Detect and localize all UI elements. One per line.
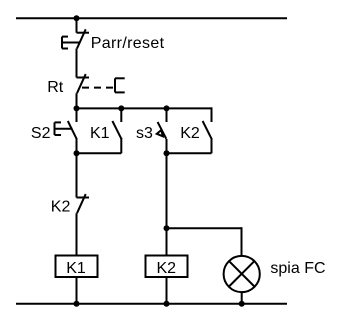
wire: S2 junction down to K2 NC contact bbox=[76, 153, 78, 197]
wire: lamp feed vertical bbox=[241, 227, 243, 255]
node: s3/K2 bottom junction bbox=[164, 150, 170, 156]
svg-text:s3: s3 bbox=[136, 125, 153, 142]
svg-text:spia FC: spia FC bbox=[270, 260, 325, 277]
svg-text:S2: S2 bbox=[31, 125, 51, 142]
node: bottom rail at K1 coil bbox=[74, 301, 80, 307]
wire: lamp to bottom rail bbox=[241, 292, 243, 304]
contact K2 (NC, left branch) bbox=[77, 194, 90, 213]
limit switch s3 (NO contact) bbox=[157, 108, 167, 153]
node: row line at s3 branch bbox=[164, 105, 170, 111]
coil K2 bbox=[146, 256, 188, 278]
svg-text:K2: K2 bbox=[51, 199, 71, 216]
pushbutton S2 (NO contact with manual actuator) bbox=[55, 108, 77, 153]
contact K2 (NO, right branch) bbox=[203, 107, 212, 153]
node: lamp branch junction bbox=[164, 225, 170, 231]
contact K1 (NO, self-holding) bbox=[112, 108, 121, 153]
wire: s3 junction down to coil K2 bbox=[166, 153, 168, 255]
svg-text:K1: K1 bbox=[90, 125, 110, 142]
node: bottom rail at lamp bbox=[239, 301, 245, 307]
wire: K1 branch bottom link bbox=[77, 152, 122, 154]
node: bottom rail at K2 coil bbox=[164, 301, 170, 307]
wire: bottom power rail bbox=[16, 303, 287, 305]
wire: coil K1 to bottom rail bbox=[76, 277, 78, 304]
wire: coil K2 to bottom rail bbox=[166, 277, 168, 304]
svg-text:Rt: Rt bbox=[47, 79, 64, 96]
node: junction top rail / main branch bbox=[74, 15, 80, 21]
node: row line at K1 branch bbox=[118, 105, 124, 111]
wire: contact row horizontal line bbox=[77, 107, 213, 109]
node: row line at main branch bbox=[74, 105, 80, 111]
pushbutton Parr/reset (NC contact with manual actuator) bbox=[62, 29, 89, 48]
wire: Parr/reset to Rt contact bbox=[76, 48, 78, 77]
lamp spia FC (indicator light) bbox=[224, 256, 260, 292]
wire: top power rail bbox=[16, 17, 287, 19]
svg-text:K1: K1 bbox=[66, 260, 86, 277]
wire: K2 NC to coil K1 bbox=[76, 213, 78, 255]
wire: Rt to contact row line bbox=[76, 93, 78, 108]
wire: lamp feed horizontal bbox=[167, 227, 243, 229]
coil K1 bbox=[56, 256, 98, 278]
wire: s3/K2 bottom link bbox=[167, 152, 212, 154]
svg-text:K2: K2 bbox=[157, 260, 177, 277]
svg-text:K2: K2 bbox=[180, 125, 200, 142]
node: S2/K1 bottom junction bbox=[74, 150, 80, 156]
svg-text:Parr/reset: Parr/reset bbox=[91, 35, 165, 52]
wire: top rail to Parr/reset contact bbox=[76, 18, 78, 33]
thermal overload contact Rt (NC) bbox=[77, 74, 125, 93]
